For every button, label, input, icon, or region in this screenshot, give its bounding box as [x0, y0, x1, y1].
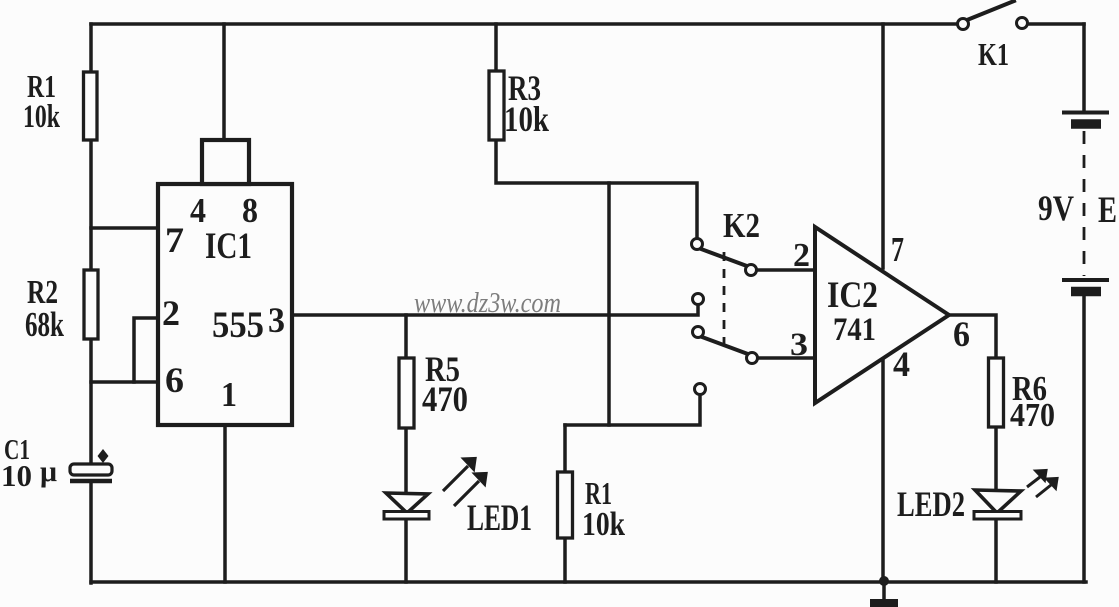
svg-text:K1: K1: [978, 36, 1009, 72]
svg-text:3: 3: [268, 300, 285, 340]
svg-text:LED2: LED2: [897, 484, 965, 524]
svg-text:2: 2: [793, 237, 810, 274]
svg-text:E: E: [1098, 190, 1117, 231]
svg-text:K2: K2: [723, 206, 760, 245]
svg-text:4: 4: [190, 191, 206, 230]
svg-text:IC1: IC1: [205, 226, 252, 267]
svg-text:8: 8: [242, 191, 258, 230]
svg-text:9V: 9V: [1038, 188, 1074, 228]
svg-text:10k: 10k: [582, 506, 625, 543]
svg-text:www.dz3w.com: www.dz3w.com: [414, 288, 561, 319]
svg-text:7: 7: [891, 230, 904, 269]
svg-text:7: 7: [165, 220, 184, 260]
svg-text:6: 6: [953, 314, 970, 354]
svg-text:741: 741: [833, 312, 876, 348]
svg-text:6: 6: [165, 360, 184, 400]
svg-text:μ: μ: [40, 455, 57, 488]
svg-text:10k: 10k: [504, 99, 549, 139]
svg-text:4: 4: [893, 344, 910, 384]
svg-text:2: 2: [162, 293, 180, 333]
svg-text:LED1: LED1: [467, 498, 532, 539]
svg-text:1: 1: [221, 375, 237, 414]
svg-text:470: 470: [422, 379, 468, 419]
svg-text:10k: 10k: [23, 99, 60, 135]
svg-text:10: 10: [1, 458, 32, 493]
svg-text:3: 3: [790, 327, 808, 363]
svg-text:68k: 68k: [25, 305, 64, 344]
svg-text:470: 470: [1010, 397, 1055, 434]
svg-text:IC2: IC2: [827, 275, 878, 316]
svg-text:555: 555: [212, 305, 264, 346]
